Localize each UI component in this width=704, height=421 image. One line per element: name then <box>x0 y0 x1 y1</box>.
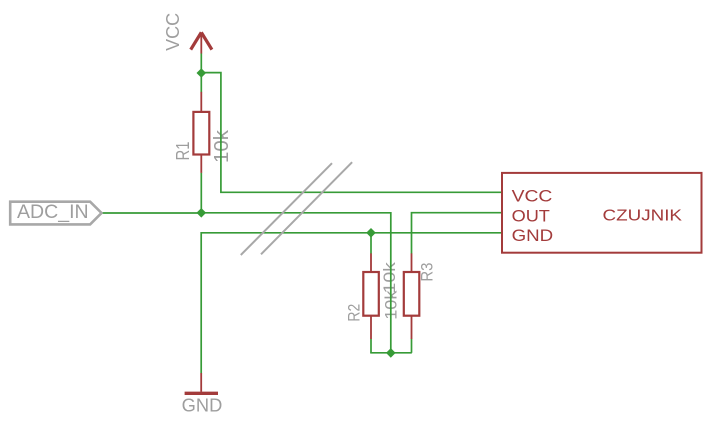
svg-text:10k: 10k <box>380 262 399 294</box>
wire bottom bar joining R2 and R3 <box>370 352 412 354</box>
svg-text:CZUJNIK: CZUJNIK <box>603 208 683 225</box>
svg-text:VCC: VCC <box>512 187 553 206</box>
wire ADC_IN to divider tap <box>102 213 391 353</box>
name label R2 <box>344 304 363 322</box>
power symbol VCC (arrow) <box>191 32 212 53</box>
svg-text:R2: R2 <box>344 304 363 322</box>
junction at VCC node <box>197 68 207 78</box>
wire VCC stem to R1 top <box>200 53 202 92</box>
wire R3 bottom stub <box>411 339 413 353</box>
value label 10k of R3 <box>380 262 399 294</box>
junction at divider bottom <box>386 348 396 358</box>
resistor R1 <box>193 92 209 173</box>
svg-text:R1: R1 <box>173 142 193 161</box>
wire GND rail to sensor GND pin and to ground <box>201 233 502 373</box>
resistor R3 <box>404 253 420 339</box>
resistor R2 <box>363 253 379 339</box>
wire sensor OUT pin to R3 top <box>412 213 503 254</box>
name label R3 <box>418 263 437 282</box>
junction at GND rail / R2 <box>366 228 376 238</box>
name label R1 <box>173 142 193 161</box>
wire R2 top stub <box>370 233 372 254</box>
wire R2 bottom stub <box>370 339 372 353</box>
wire VCC junction to sensor VCC pin <box>201 73 502 193</box>
junction at ADC_IN node <box>197 208 207 218</box>
svg-text:GND: GND <box>512 226 554 245</box>
net label VCC (gray, rotated) <box>163 13 183 51</box>
sensor box CZUJNIK <box>502 173 702 253</box>
svg-text:VCC: VCC <box>163 13 183 51</box>
ground symbol GND <box>185 373 218 393</box>
wire R1 bottom to ADC_IN node <box>200 173 202 213</box>
net flag ADC_IN <box>10 202 101 225</box>
cable break slash 1 <box>241 163 332 255</box>
svg-text:ADC_IN: ADC_IN <box>17 202 89 223</box>
value label 10k of R1 <box>210 129 233 163</box>
svg-text:R3: R3 <box>418 263 437 282</box>
value label 10k of R2 <box>382 290 401 320</box>
svg-text:OUT: OUT <box>512 207 550 226</box>
cable break slash 2 <box>261 162 352 254</box>
net label GND (gray) <box>182 395 223 415</box>
svg-text:GND: GND <box>182 395 223 415</box>
